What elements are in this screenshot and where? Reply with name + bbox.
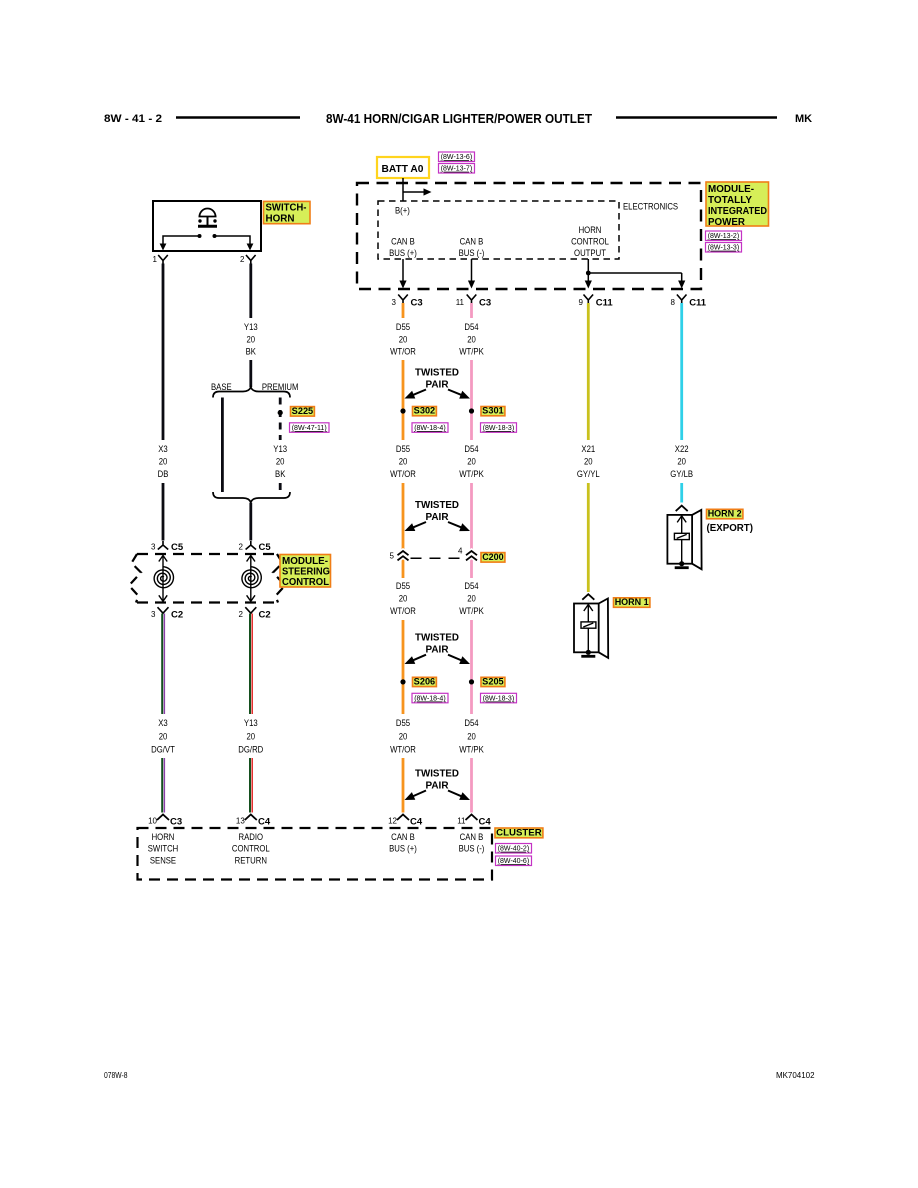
svg-text:X3: X3 [158,444,168,454]
svg-text:WT/PK: WT/PK [459,469,484,479]
svg-text:BUS (-): BUS (-) [459,844,485,854]
svg-text:Y13: Y13 [244,322,258,332]
svg-text:2: 2 [239,610,244,619]
svg-text:D54: D54 [464,322,478,332]
svg-text:GY/LB: GY/LB [670,469,693,479]
svg-text:8W-41 HORN/CIGAR LIGHTER/POWER: 8W-41 HORN/CIGAR LIGHTER/POWER OUTLET [326,111,592,126]
svg-text:ELECTRONICS: ELECTRONICS [623,202,678,212]
svg-text:(8W-13-2): (8W-13-2) [708,231,740,240]
svg-text:RETURN: RETURN [235,856,267,866]
svg-text:(8W-40-2): (8W-40-2) [498,844,530,853]
svg-text:WT/OR: WT/OR [390,469,416,479]
svg-text:8: 8 [671,298,676,307]
svg-text:(8W-13-6): (8W-13-6) [441,152,473,161]
svg-text:CONTROL: CONTROL [232,844,270,854]
svg-text:CAN B: CAN B [391,832,415,842]
svg-text:B(+): B(+) [395,206,410,216]
svg-text:TWISTED: TWISTED [415,632,459,644]
svg-text:HORN: HORN [579,225,602,235]
svg-text:HORN: HORN [152,832,175,842]
svg-text:D54: D54 [464,444,478,454]
svg-text:WT/PK: WT/PK [459,606,484,616]
svg-text:X22: X22 [675,444,689,454]
svg-text:20: 20 [159,456,168,466]
svg-text:BUS (-): BUS (-) [459,248,485,258]
svg-text:DB: DB [158,469,169,479]
svg-text:X21: X21 [581,444,595,454]
svg-text:RADIO: RADIO [239,832,264,842]
svg-text:WT/OR: WT/OR [390,744,416,754]
svg-text:HORN 1: HORN 1 [615,597,649,607]
svg-text:C3: C3 [479,298,491,309]
svg-text:(8W-13-3): (8W-13-3) [708,243,740,252]
svg-text:BUS (+): BUS (+) [389,844,417,854]
svg-text:MODULE-: MODULE- [708,184,754,195]
svg-text:20: 20 [677,456,686,466]
svg-text:DG/RD: DG/RD [238,744,263,754]
svg-text:(8W-13-7): (8W-13-7) [441,164,473,173]
svg-text:078W-8: 078W-8 [104,1071,128,1080]
svg-text:10: 10 [148,817,157,826]
svg-text:2: 2 [240,255,245,264]
svg-text:20: 20 [467,335,476,345]
svg-text:(8W-18-4): (8W-18-4) [414,694,446,703]
svg-text:TWISTED: TWISTED [415,499,459,511]
svg-text:C4: C4 [258,817,271,828]
svg-text:C11: C11 [596,298,614,309]
svg-text:S301: S301 [482,406,504,416]
svg-text:20: 20 [276,456,285,466]
svg-text:2: 2 [239,543,244,552]
svg-text:D55: D55 [396,581,410,591]
svg-text:3: 3 [151,543,156,552]
svg-text:3: 3 [151,610,156,619]
svg-text:TWISTED: TWISTED [415,366,459,378]
svg-text:C2: C2 [171,610,183,621]
svg-text:CAN B: CAN B [460,237,484,247]
svg-text:WT/OR: WT/OR [390,606,416,616]
svg-text:(8W-40-6): (8W-40-6) [498,856,530,865]
svg-text:13: 13 [236,817,245,826]
svg-text:SENSE: SENSE [150,856,176,866]
svg-text:C3: C3 [411,298,423,309]
svg-text:POWER: POWER [708,217,745,228]
svg-text:PAIR: PAIR [426,780,449,792]
svg-text:BATT A0: BATT A0 [382,163,424,175]
svg-text:D55: D55 [396,718,410,728]
svg-text:5: 5 [390,552,395,561]
svg-text:20: 20 [399,335,408,345]
svg-text:20: 20 [584,456,593,466]
svg-text:20: 20 [467,456,476,466]
svg-text:D55: D55 [396,322,410,332]
svg-text:SWITCH-: SWITCH- [266,203,307,214]
svg-text:S225: S225 [292,406,314,416]
svg-text:CLUSTER: CLUSTER [496,828,542,839]
svg-text:GY/YL: GY/YL [577,469,600,479]
svg-text:TWISTED: TWISTED [415,767,459,779]
svg-text:S206: S206 [414,676,436,686]
svg-text:SWITCH: SWITCH [148,844,179,854]
svg-text:12: 12 [388,817,397,826]
svg-text:WT/PK: WT/PK [459,744,484,754]
svg-text:20: 20 [467,731,476,741]
svg-text:20: 20 [399,731,408,741]
svg-text:S205: S205 [482,676,504,686]
svg-text:Y13: Y13 [244,718,258,728]
svg-text:9: 9 [579,298,584,307]
svg-text:BK: BK [246,347,256,357]
svg-text:11: 11 [456,298,465,307]
svg-text:CONTROL: CONTROL [571,237,609,247]
svg-text:WT/OR: WT/OR [390,347,416,357]
svg-text:20: 20 [247,335,256,345]
svg-text:C5: C5 [259,542,272,553]
svg-text:3: 3 [392,298,397,307]
svg-text:D54: D54 [464,718,478,728]
svg-text:(8W-18-3): (8W-18-3) [483,694,515,703]
svg-text:HORN: HORN [266,214,295,225]
svg-text:OUTPUT: OUTPUT [574,248,606,258]
svg-text:PAIR: PAIR [426,379,449,391]
svg-text:C4: C4 [479,817,492,828]
svg-text:Y13: Y13 [273,444,287,454]
svg-text:HORN 2: HORN 2 [708,509,742,519]
svg-text:C11: C11 [689,298,707,309]
svg-text:CAN B: CAN B [460,832,484,842]
svg-text:20: 20 [467,593,476,603]
svg-text:20: 20 [159,731,168,741]
svg-text:CAN B: CAN B [391,237,415,247]
svg-text:11: 11 [457,817,466,826]
svg-text:20: 20 [399,593,408,603]
svg-text:20: 20 [247,731,256,741]
svg-text:C4: C4 [410,817,423,828]
svg-text:C5: C5 [171,542,184,553]
svg-text:INTEGRATED: INTEGRATED [708,206,767,217]
svg-text:(8W-18-4): (8W-18-4) [414,423,446,432]
svg-text:C2: C2 [259,610,271,621]
svg-text:PAIR: PAIR [426,511,449,523]
svg-text:4: 4 [458,547,463,556]
svg-text:MK: MK [795,113,812,125]
svg-text:C3: C3 [170,817,182,828]
svg-text:C200: C200 [482,552,504,562]
svg-text:PREMIUM: PREMIUM [262,382,299,392]
svg-text:WT/PK: WT/PK [459,347,484,357]
svg-text:20: 20 [399,456,408,466]
svg-text:STEERING: STEERING [282,567,330,578]
svg-text:DG/VT: DG/VT [151,744,175,754]
svg-text:(8W-18-3): (8W-18-3) [483,423,515,432]
svg-text:8W - 41 - 2: 8W - 41 - 2 [104,113,162,125]
svg-text:CONTROL: CONTROL [282,577,329,588]
svg-text:TOTALLY: TOTALLY [708,195,752,206]
svg-text:D55: D55 [396,444,410,454]
svg-text:X3: X3 [158,718,168,728]
svg-text:(EXPORT): (EXPORT) [707,523,754,534]
svg-text:BK: BK [275,469,285,479]
svg-text:MODULE-: MODULE- [282,556,328,567]
svg-text:BUS (+): BUS (+) [389,248,417,258]
svg-text:BASE: BASE [211,382,232,392]
svg-text:1: 1 [153,255,158,264]
svg-text:MK704102: MK704102 [776,1071,815,1080]
svg-text:D54: D54 [464,581,478,591]
svg-text:PAIR: PAIR [426,644,449,656]
svg-text:S302: S302 [414,406,436,416]
svg-text:(8W-47-11): (8W-47-11) [292,423,327,432]
